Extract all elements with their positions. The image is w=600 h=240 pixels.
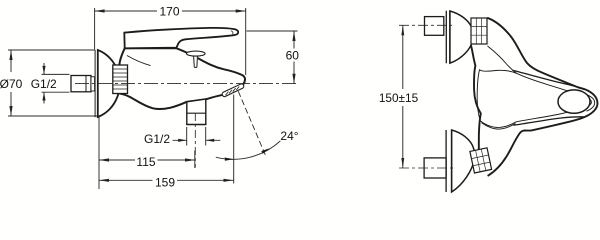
contour dip doubling bottom left — [482, 123, 516, 129]
svg-text:115: 115 — [136, 155, 155, 169]
top bell face double line — [446, 11, 450, 63]
pipe stub inner line — [85, 76, 87, 92]
arc arrowheads — [225, 148, 270, 161]
body bottom sweep from nut to handle tip corner — [488, 117, 585, 176]
outlet connection rectangle — [187, 99, 206, 125]
top bell dome — [450, 11, 474, 63]
svg-text:170: 170 — [159, 4, 179, 18]
dimension 60 arrows — [292, 31, 295, 84]
dimension 115 line — [99, 159, 195, 161]
top collar nut facets — [471, 18, 487, 44]
contour branch from top nut — [488, 46, 517, 73]
svg-text:G1/2: G1/2 — [31, 77, 57, 91]
inner tip ring — [587, 95, 595, 112]
mixer body (side view) — [119, 48, 245, 109]
dimension G1/2 bottom arrows — [173, 139, 221, 141]
lever oval — [558, 90, 590, 113]
top inlet pipe stub — [425, 17, 444, 36]
spout nozzle band — [221, 83, 244, 97]
bottom bell face double line — [446, 130, 452, 192]
handle tip arc — [585, 89, 598, 117]
dimension D70 extension top — [8, 49, 95, 51]
svg-text:159: 159 — [155, 175, 175, 189]
bell face double line — [94, 50, 96, 117]
body top sweep from nut to handle tip corner — [487, 18, 585, 90]
nozzle hatch ticks — [226, 87, 240, 96]
intermediate ridge bottom — [514, 117, 585, 125]
diverter knob cap — [187, 51, 206, 56]
pipe stub lip ring — [91, 77, 95, 91]
wall pipe stub square — [71, 76, 91, 92]
dimension D70 arrows — [9, 50, 12, 116]
svg-text:150±15: 150±15 — [379, 91, 419, 105]
115 right reference tick — [194, 151, 196, 169]
outlet dashed centerline — [194, 113, 196, 168]
dimension 60 extension line — [247, 30, 298, 32]
svg-text:G1/2: G1/2 — [144, 132, 170, 146]
dimension 60 line — [293, 31, 295, 84]
left extension line for 115/159 — [98, 117, 100, 189]
dimension 150+-15 line — [402, 25, 404, 168]
intermediate ridge top — [513, 70, 585, 89]
extension line right of 170 — [245, 8, 247, 75]
collar ribs — [113, 69, 128, 89]
svg-text:24°: 24° — [280, 129, 298, 143]
dimension G1/2 bottom extension lines — [187, 127, 206, 146]
dimension 159 line — [99, 179, 234, 181]
dimension G1/2 left arrows — [43, 63, 45, 104]
diverter knob stem — [194, 56, 198, 68]
diverter knob stem white mask — [193, 56, 198, 68]
dimension 170 arrows — [95, 9, 246, 12]
24 degree arc — [216, 141, 281, 159]
24 degree dashed line — [238, 91, 265, 156]
outlet rectangle divider — [187, 112, 206, 114]
body silhouette white fill — [471, 18, 598, 176]
ribbed collar nut (side view) — [113, 65, 128, 94]
top inlet centerline — [399, 24, 452, 26]
bell escutcheon (side view) — [98, 50, 120, 117]
body left edge: top arm, blob arc, bottom arm — [471, 45, 481, 153]
lever handle (side view) — [124, 28, 238, 48]
svg-text:60: 60 — [286, 48, 300, 62]
dimension 170 line — [95, 10, 246, 12]
bottom inlet centerline — [399, 167, 456, 169]
angle reference vertical line — [233, 95, 235, 184]
dimension 115 arrows — [99, 158, 195, 161]
dimension D70 extension bottom — [8, 115, 101, 117]
dimension D70 line — [10, 50, 12, 116]
body contour line — [127, 56, 151, 66]
lever tip inner line — [231, 31, 233, 35]
inner contour loop — [477, 70, 591, 128]
svg-text:Ø70: Ø70 — [0, 77, 23, 91]
dimension 150+-15 arrows — [401, 25, 404, 168]
extension line left of 170 — [94, 8, 96, 49]
bottom inlet pipe stub — [424, 158, 446, 178]
main centerline left view — [75, 83, 298, 85]
top collar nut — [471, 18, 487, 44]
dimension G1/2 left extension lines — [42, 74, 70, 92]
dimension 159 arrows — [99, 179, 234, 182]
bottom collar nut — [470, 148, 492, 173]
bottom bell dome — [452, 130, 475, 192]
